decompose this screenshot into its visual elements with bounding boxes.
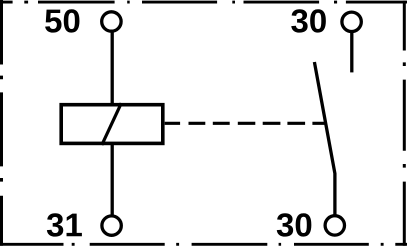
label 31 xyxy=(47,213,82,236)
border left edge xyxy=(0,0,3,246)
terminal 30 top circle xyxy=(342,12,361,31)
switch blade (movable contact) xyxy=(314,62,335,216)
label 30 (bottom right) xyxy=(277,213,312,236)
border right edge xyxy=(403,1,406,246)
wire stub from terminal 30 (fixed contact) xyxy=(350,32,353,73)
terminal 50 circle xyxy=(102,12,121,31)
border bottom edge xyxy=(0,243,407,246)
wire terminal 50 to coil xyxy=(111,31,114,106)
terminal 30 bottom circle xyxy=(325,216,344,235)
wire coil to terminal 31 xyxy=(111,142,114,217)
dashed actuation link coil to switch xyxy=(165,122,325,125)
relay coil K1 box xyxy=(61,105,163,144)
coil diagonal stroke xyxy=(102,103,122,145)
label 50 xyxy=(45,9,79,32)
label 30 (top right) xyxy=(291,9,326,32)
relay enclosure border (dash-dot frame): top edge xyxy=(0,1,407,4)
terminal 31 circle xyxy=(102,216,121,235)
